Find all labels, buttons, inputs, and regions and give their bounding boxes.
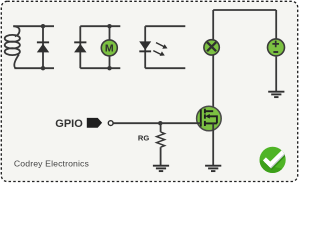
- inductor L1: [5, 26, 20, 68]
- wire: section1 top: [13, 25, 54, 27]
- LED D3: [139, 41, 151, 52]
- node: RG junction: [158, 121, 162, 125]
- wire: MOSFET source to ground: [212, 123, 214, 165]
- wire: RG to ground: [160, 147, 162, 166]
- ground GND3: [153, 166, 169, 171]
- checkmark badge: [260, 147, 286, 175]
- wire: section3 top: [145, 25, 185, 27]
- node: motor top junction: [107, 24, 111, 28]
- svg-text:GPIO: GPIO: [55, 118, 83, 130]
- wire: lamp to MOSFET drain: [212, 55, 214, 111]
- wire: gate wire: [113, 122, 200, 124]
- wire: battery branch upper: [275, 10, 277, 39]
- wire: section3 left vertical: [144, 26, 146, 68]
- GPIO terminal: [108, 121, 113, 126]
- svg-text:M: M: [105, 43, 114, 55]
- lamp LP1: [204, 40, 219, 55]
- node: motor bottom junction: [107, 66, 111, 70]
- ground GND1: [268, 92, 284, 97]
- wire: section1 bottom: [14, 67, 54, 69]
- GPIO pin flag: [87, 118, 102, 128]
- svg-text:Codrey Electronics: Codrey Electronics: [14, 159, 90, 169]
- ground GND2: [205, 166, 221, 171]
- LED D3 emission arrows: [153, 43, 164, 55]
- node: D1 bottom junction: [41, 66, 45, 70]
- diode D1: [37, 41, 49, 52]
- wire: lamp branch upper: [212, 10, 214, 39]
- diode D2: [74, 41, 86, 52]
- panel background with dashed border: [1, 1, 297, 181]
- wire: section2 bottom: [80, 67, 120, 69]
- wire: section3 bottom: [145, 67, 185, 69]
- battery B1: [268, 39, 285, 56]
- svg-text:RG: RG: [138, 134, 149, 143]
- MOSFET Q1: [197, 106, 222, 131]
- motor M1: [101, 40, 117, 56]
- wire: RG top stub: [160, 123, 162, 132]
- node: D1 top junction: [41, 24, 45, 28]
- wire: section2 left vertical: [79, 26, 81, 68]
- wire: diode D1 branch vertical: [42, 26, 44, 68]
- wire: section2 top: [80, 25, 120, 27]
- wire: battery to ground: [275, 57, 277, 92]
- resistor RG: [157, 132, 165, 147]
- wire: motor branch stubs: [109, 26, 111, 68]
- wire: lamp circuit top: [213, 9, 276, 11]
